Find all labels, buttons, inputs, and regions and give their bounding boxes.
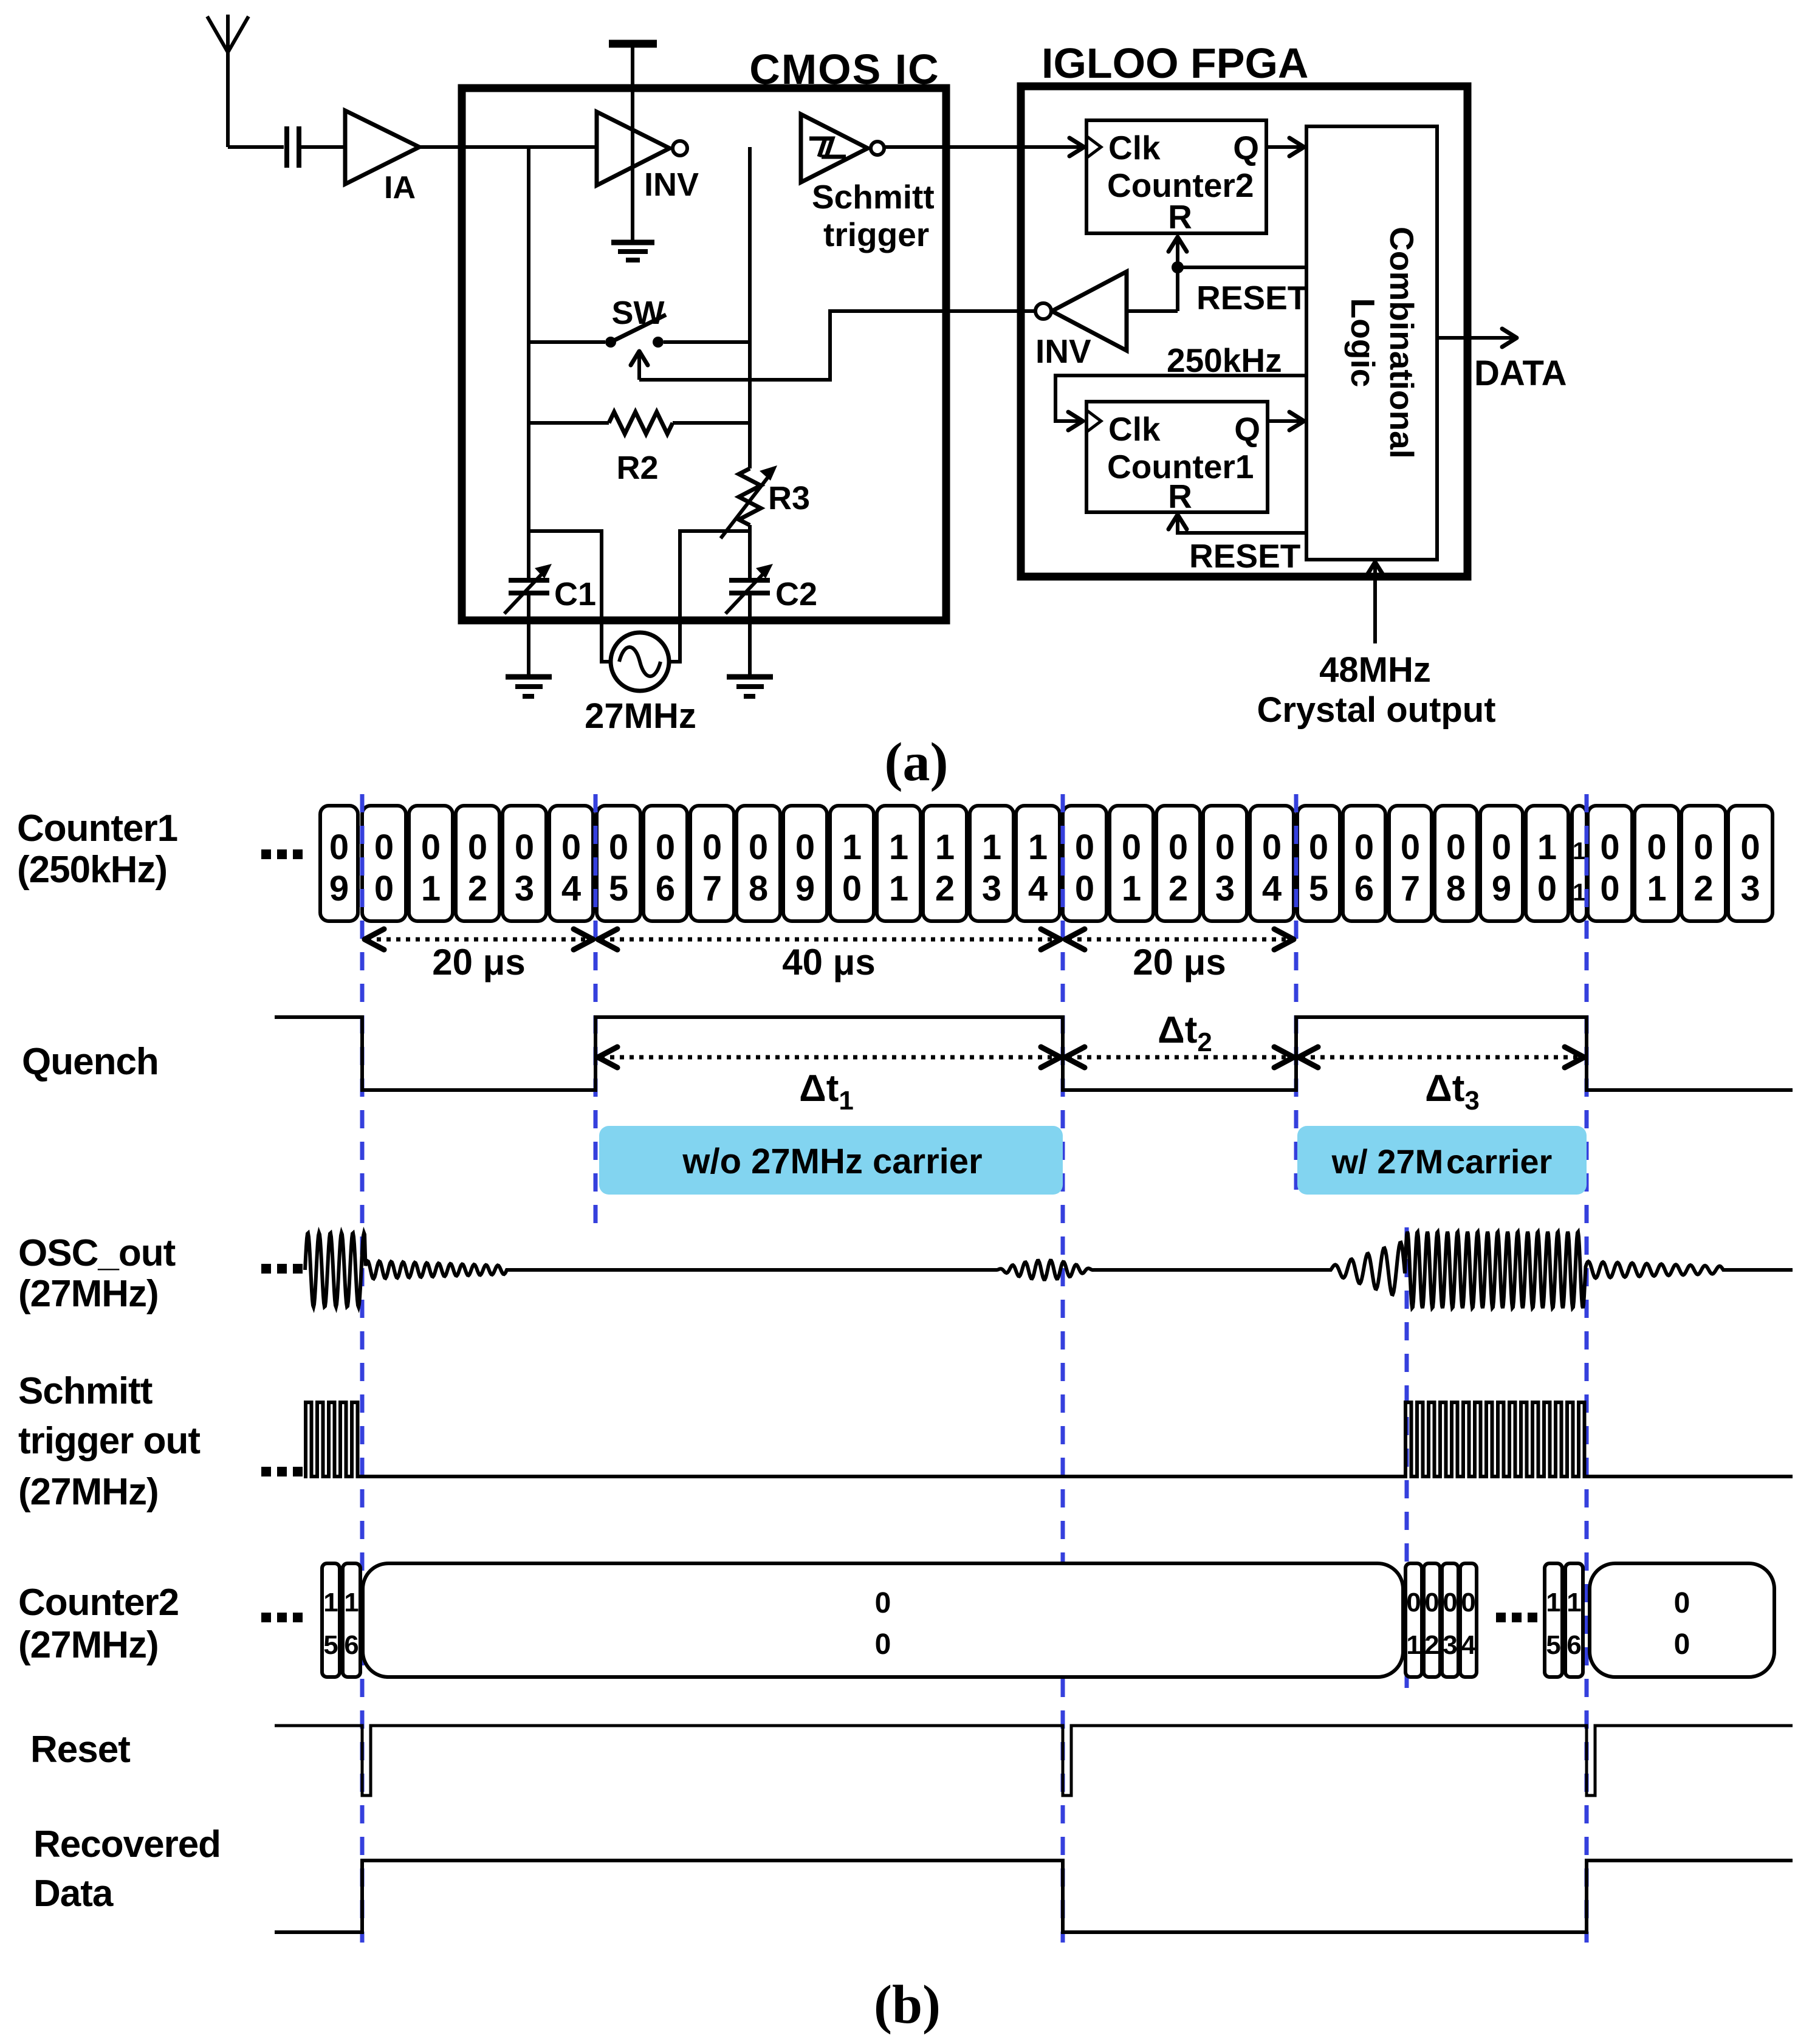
counter1 cell 01	[409, 806, 453, 921]
svg-text:IGLOO FPGA: IGLOO FPGA	[1042, 39, 1308, 87]
svg-text:1: 1	[935, 828, 955, 867]
counter1 cell 02	[456, 806, 499, 921]
svg-text:5: 5	[609, 869, 628, 908]
measure arrow 20us second	[1065, 929, 1294, 983]
switch SW	[529, 295, 750, 348]
counter1 cell 12	[923, 806, 967, 921]
Schmitt trigger out waveform	[304, 1402, 1793, 1476]
svg-text:Counter2: Counter2	[18, 1582, 179, 1624]
Schmitt trigger	[801, 114, 935, 253]
dashed marker line 6	[1405, 1227, 1409, 1689]
wire IA to CMOS IC	[419, 145, 597, 149]
svg-text:Logic: Logic	[1344, 298, 1382, 388]
svg-text:0: 0	[1215, 828, 1235, 867]
svg-text:IA: IA	[384, 170, 416, 205]
svg-text:0: 0	[1674, 1628, 1690, 1661]
inverter INV (FPGA)	[1035, 272, 1127, 370]
svg-text:0: 0	[1694, 828, 1713, 867]
svg-text:3: 3	[1443, 1630, 1457, 1660]
svg-text:0: 0	[515, 828, 534, 867]
svg-text:Schmitt: Schmitt	[18, 1370, 153, 1412]
svg-text:0: 0	[1309, 828, 1328, 867]
svg-text:w/o 27MHz carrier: w/o 27MHz carrier	[682, 1142, 982, 1181]
switch control arrow	[631, 351, 648, 380]
svg-text:0: 0	[1075, 869, 1094, 908]
RESET net to Counter2 R	[1169, 237, 1308, 317]
counter1 cell 08	[736, 806, 780, 921]
svg-text:0: 0	[875, 1587, 891, 1619]
svg-text:6: 6	[344, 1630, 359, 1660]
svg-text:48MHz: 48MHz	[1319, 650, 1431, 690]
svg-text:SW: SW	[612, 295, 665, 331]
counter2 cell 15	[1545, 1563, 1562, 1677]
svg-text:8: 8	[1446, 869, 1466, 908]
svg-text:7: 7	[1401, 869, 1420, 908]
counter2 cell 00 (long)	[363, 1563, 1403, 1677]
CMOS IC box	[462, 46, 946, 620]
wire Counter1 Q to logic	[1268, 412, 1304, 430]
svg-text:3: 3	[982, 869, 1001, 908]
svg-text:0: 0	[1169, 828, 1188, 867]
svg-text:9: 9	[329, 869, 349, 908]
OSC_out waveform	[305, 1232, 1793, 1308]
counter1 cell 07	[1389, 806, 1432, 921]
svg-text:Clk: Clk	[1108, 129, 1161, 166]
amplifier IA	[345, 111, 419, 205]
svg-text:5: 5	[1546, 1630, 1560, 1660]
ground below C1	[506, 677, 552, 696]
counter1 cell 09	[783, 806, 827, 921]
svg-text:1: 1	[889, 828, 908, 867]
svg-text:R: R	[1168, 478, 1192, 515]
node wire left (oscillator input branch)	[527, 147, 530, 675]
svg-text:0: 0	[1600, 869, 1619, 908]
counter2 cell 15	[322, 1563, 340, 1677]
svg-text:250kHz: 250kHz	[1167, 341, 1282, 379]
node wire mid (feedback branch)	[748, 147, 752, 675]
measure arrow 40us	[598, 929, 1060, 983]
svg-text:(a): (a)	[885, 732, 949, 792]
svg-text:Reset: Reset	[30, 1729, 130, 1771]
counter1 cell 01	[1110, 806, 1153, 921]
counter1 cell 08	[1435, 806, 1477, 921]
svg-text:(27MHz): (27MHz)	[18, 1471, 159, 1513]
svg-text:R2: R2	[616, 450, 658, 486]
row label Counter2 (27MHz)	[18, 1582, 179, 1666]
svg-text:5: 5	[1309, 869, 1328, 908]
counter2 cell 02	[1424, 1563, 1440, 1677]
svg-text:40 μs: 40 μs	[782, 942, 876, 983]
svg-text:1: 1	[344, 1588, 359, 1617]
svg-text:8: 8	[749, 869, 768, 908]
svg-text:RESET: RESET	[1189, 537, 1300, 575]
svg-text:3: 3	[1740, 869, 1760, 908]
svg-text:0: 0	[1406, 1588, 1421, 1617]
svg-text:w/ 27M carrier: w/ 27M carrier	[1331, 1142, 1553, 1181]
svg-text:0: 0	[1446, 828, 1466, 867]
counter1 cell 13	[970, 806, 1014, 921]
counter2 ellipsis mid	[1496, 1613, 1537, 1622]
svg-text:Q: Q	[1234, 410, 1260, 448]
row label Recovered Data	[33, 1823, 221, 1915]
svg-text:0: 0	[468, 828, 487, 867]
svg-text:1: 1	[1647, 869, 1666, 908]
counter1 cell 09	[320, 806, 358, 921]
svg-text:0: 0	[795, 828, 815, 867]
counter1 cell 11	[1572, 806, 1587, 921]
counter2 cell 16	[1565, 1563, 1583, 1677]
svg-text:27MHz: 27MHz	[585, 696, 696, 736]
svg-text:Recovered: Recovered	[33, 1823, 221, 1865]
highlight w/o 27MHz carrier	[599, 1126, 1063, 1195]
counter1 cell 05	[597, 806, 640, 921]
svg-text:C1: C1	[554, 576, 596, 612]
counter2 cell 01	[1405, 1563, 1422, 1677]
svg-text:OSC_out: OSC_out	[18, 1232, 176, 1274]
counter1 cell 00	[1063, 806, 1107, 921]
svg-text:0: 0	[1461, 1588, 1475, 1617]
svg-text:0: 0	[1537, 869, 1557, 908]
svg-text:Counter1: Counter1	[17, 808, 177, 849]
svg-text:3: 3	[515, 869, 534, 908]
dashed marker line 2	[594, 794, 598, 1224]
delta t3 arrow	[1299, 1047, 1584, 1116]
schmitt ellipsis	[261, 1467, 303, 1476]
counter1 cell 10	[1526, 806, 1568, 921]
Counter2 block	[1086, 120, 1266, 236]
counter1 cell 04	[1250, 806, 1294, 921]
svg-text:1: 1	[842, 828, 862, 867]
svg-text:0: 0	[1740, 828, 1760, 867]
delta t1 arrow	[598, 1047, 1060, 1116]
counter1 cell 06	[1343, 806, 1385, 921]
svg-text:Combinational: Combinational	[1383, 227, 1421, 459]
svg-text:0: 0	[1600, 828, 1619, 867]
svg-text:trigger out: trigger out	[18, 1420, 200, 1462]
svg-text:0: 0	[1443, 1588, 1457, 1617]
dashed marker line 5	[1585, 794, 1589, 1943]
svg-text:3: 3	[1215, 869, 1235, 908]
48MHz crystal input	[1257, 562, 1495, 730]
svg-text:0: 0	[609, 828, 628, 867]
control wire from FPGA INV to SW	[639, 311, 1035, 380]
ground below C2	[727, 677, 773, 696]
svg-text:1: 1	[1573, 879, 1586, 906]
svg-text:1: 1	[1567, 1588, 1581, 1617]
svg-text:2: 2	[1424, 1630, 1439, 1660]
counter1 cell 03	[1203, 806, 1247, 921]
resistor R2	[529, 412, 750, 486]
delta t2 arrow	[1065, 1009, 1294, 1068]
svg-text:1: 1	[1406, 1630, 1421, 1660]
Combinational Logic block	[1306, 126, 1437, 560]
svg-text:1: 1	[1122, 869, 1141, 908]
counter1 cell 03	[1728, 806, 1773, 921]
svg-text:2: 2	[468, 869, 487, 908]
27MHz oscillator source	[585, 633, 696, 736]
svg-text:6: 6	[656, 869, 675, 908]
svg-text:0: 0	[702, 828, 722, 867]
counter2 cell 03	[1442, 1563, 1458, 1677]
svg-text:0: 0	[1075, 828, 1094, 867]
counter1 cell 00	[1588, 806, 1632, 921]
counter1 ellipsis	[261, 849, 303, 859]
counter1 cell 01	[1635, 806, 1679, 921]
svg-text:DATA: DATA	[1474, 354, 1567, 393]
wire capacitor to IA	[299, 145, 345, 149]
counter1 cell 10	[830, 806, 874, 921]
svg-text:trigger: trigger	[823, 216, 929, 253]
svg-text:0: 0	[1647, 828, 1666, 867]
svg-text:Schmitt: Schmitt	[812, 178, 935, 216]
reset waveform	[275, 1726, 1793, 1795]
DATA output	[1437, 329, 1567, 393]
250kHz net to Counter1 Clk	[1055, 341, 1306, 430]
svg-text:1: 1	[1546, 1588, 1560, 1617]
variable resistor R3	[721, 465, 810, 538]
svg-text:0: 0	[842, 869, 862, 908]
svg-text:R: R	[1168, 198, 1192, 236]
RESET net to Counter1 R	[1169, 515, 1306, 575]
counter1 cell 03	[503, 806, 546, 921]
dashed marker line 3	[1061, 794, 1065, 1943]
svg-text:0: 0	[1262, 828, 1282, 867]
wire INV output to RESET node	[1127, 309, 1178, 313]
svg-text:INV: INV	[1035, 332, 1091, 370]
measure arrow 20us	[365, 929, 593, 983]
svg-text:1: 1	[1537, 828, 1557, 867]
svg-text:0: 0	[329, 828, 349, 867]
variable capacitor C2	[726, 564, 817, 614]
svg-text:Q: Q	[1233, 129, 1259, 166]
svg-text:0: 0	[561, 828, 581, 867]
VDD supply bar	[609, 44, 657, 241]
svg-text:9: 9	[1492, 869, 1511, 908]
svg-text:9: 9	[795, 869, 815, 908]
counter2 cell 04	[1460, 1563, 1477, 1677]
svg-text:1: 1	[982, 828, 1001, 867]
svg-text:2: 2	[1694, 869, 1713, 908]
wire C1 branch to 27MHz source	[529, 531, 611, 662]
counter1 cell 06	[643, 806, 687, 921]
svg-text:Crystal output: Crystal output	[1257, 690, 1495, 730]
svg-text:R3: R3	[768, 480, 810, 516]
inverter INV (CMOS)	[597, 112, 699, 203]
svg-text:0: 0	[374, 869, 394, 908]
svg-text:0: 0	[1424, 1588, 1439, 1617]
IGLOO FPGA box	[1021, 39, 1467, 577]
svg-text:1: 1	[323, 1588, 338, 1617]
svg-text:INV: INV	[644, 166, 699, 203]
svg-text:2: 2	[1169, 869, 1188, 908]
svg-text:0: 0	[749, 828, 768, 867]
svg-text:0: 0	[1401, 828, 1420, 867]
dashed marker line 4	[1294, 794, 1299, 1190]
recovered data waveform	[275, 1861, 1793, 1932]
svg-text:4: 4	[1461, 1630, 1476, 1660]
svg-text:0: 0	[421, 828, 441, 867]
counter1 cell 11	[877, 806, 921, 921]
svg-text:Data: Data	[33, 1873, 114, 1915]
wire 27MHz source to C2 branch	[669, 531, 750, 662]
counter1 cell 05	[1297, 806, 1340, 921]
svg-text:5: 5	[323, 1630, 338, 1660]
counter1 cell 04	[549, 806, 593, 921]
row label Schmitt trigger out (27MHz)	[18, 1370, 200, 1513]
highlight w/ 27M carrier	[1297, 1126, 1587, 1195]
svg-text:Clk: Clk	[1108, 410, 1161, 448]
svg-text:(250kHz): (250kHz)	[17, 849, 167, 891]
svg-text:0: 0	[1674, 1587, 1690, 1619]
svg-text:CMOS IC: CMOS IC	[749, 46, 939, 93]
counter1 cell 00	[362, 806, 406, 921]
svg-text:0: 0	[1354, 828, 1374, 867]
svg-text:1: 1	[1028, 828, 1048, 867]
dashed marker line 1	[360, 794, 365, 1943]
counter1 cell 09	[1480, 806, 1523, 921]
svg-text:0: 0	[374, 828, 394, 867]
counter2 cell 16	[343, 1563, 360, 1677]
svg-text:2: 2	[935, 869, 955, 908]
svg-text:6: 6	[1567, 1630, 1581, 1660]
svg-text:(b): (b)	[874, 1975, 941, 2035]
svg-text:RESET: RESET	[1196, 279, 1308, 317]
svg-text:4: 4	[1028, 869, 1048, 908]
svg-text:20 μs: 20 μs	[432, 942, 526, 983]
svg-text:6: 6	[1354, 869, 1374, 908]
svg-text:(27MHz): (27MHz)	[18, 1273, 159, 1315]
wire Schmitt output to Counter2 Clk	[884, 138, 1084, 156]
row label Counter1 (250kHz)	[17, 808, 177, 891]
svg-text:(27MHz): (27MHz)	[18, 1624, 159, 1666]
variable capacitor C1	[504, 564, 596, 614]
osc ellipsis	[261, 1264, 303, 1274]
counter1 cell 07	[690, 806, 734, 921]
counter1 cell 14	[1016, 806, 1060, 921]
svg-text:0: 0	[1122, 828, 1141, 867]
Counter1 block	[1086, 402, 1268, 515]
coupling capacitor	[287, 126, 299, 168]
svg-text:0: 0	[875, 1628, 891, 1661]
counter1 cell 02	[1681, 806, 1726, 921]
svg-text:4: 4	[1262, 869, 1282, 908]
quench waveform	[275, 1017, 1793, 1090]
svg-text:4: 4	[561, 869, 581, 908]
ground below INV	[611, 242, 654, 260]
svg-text:C2: C2	[775, 576, 817, 612]
row label OSC_out (27MHz)	[18, 1232, 176, 1315]
svg-text:1: 1	[421, 869, 441, 908]
svg-text:7: 7	[702, 869, 722, 908]
counter1 cell 02	[1156, 806, 1200, 921]
svg-text:1: 1	[1573, 838, 1586, 865]
svg-text:0: 0	[656, 828, 675, 867]
svg-text:20 μs: 20 μs	[1133, 942, 1226, 983]
counter2 cell 00 (long)	[1590, 1563, 1774, 1677]
wire antenna to coupling capacitor	[228, 145, 284, 149]
antenna	[207, 15, 249, 147]
counter2 ellipsis left	[261, 1613, 303, 1622]
wire Counter2 Q to logic	[1266, 138, 1304, 156]
svg-text:0: 0	[1492, 828, 1511, 867]
svg-text:1: 1	[889, 869, 908, 908]
svg-text:Quench: Quench	[22, 1041, 159, 1083]
